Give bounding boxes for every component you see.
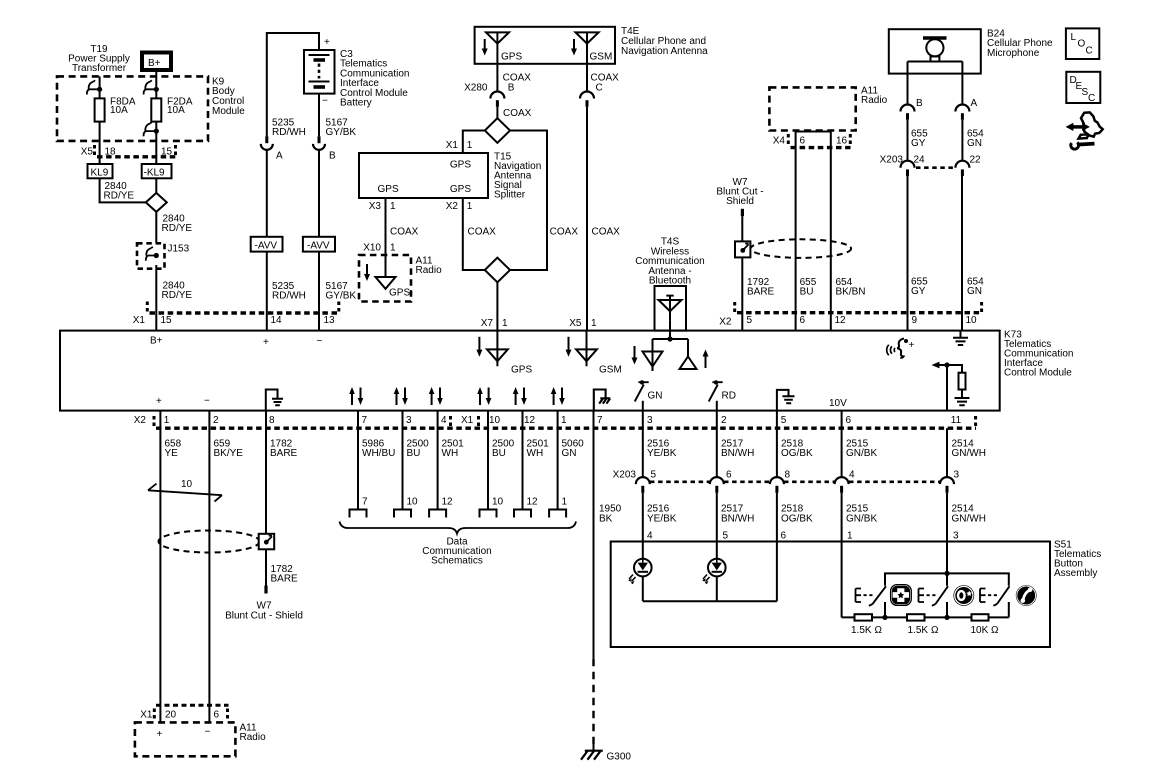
svg-text:BU: BU bbox=[407, 448, 421, 459]
splitter T15 box bbox=[359, 153, 488, 198]
svg-text:X2: X2 bbox=[134, 415, 147, 426]
svg-text:YE/BK: YE/BK bbox=[647, 514, 677, 525]
svg-text:YE: YE bbox=[165, 448, 179, 459]
svg-text:O: O bbox=[1078, 39, 1086, 50]
svg-text:24: 24 bbox=[914, 155, 926, 166]
connector X1 row bbox=[133, 315, 335, 326]
wire 2501 WH data bbox=[437, 411, 439, 510]
splice hook below F2DA bbox=[144, 122, 157, 136]
description DESC box bbox=[1066, 72, 1100, 103]
location LOC box bbox=[1066, 28, 1099, 59]
svg-text:A: A bbox=[276, 151, 283, 162]
wire 2517 BN/WH upper bbox=[716, 411, 718, 478]
svg-text:-KL9: -KL9 bbox=[144, 167, 166, 178]
svg-text:3: 3 bbox=[953, 531, 959, 542]
svg-text:GN/BK: GN/BK bbox=[846, 514, 877, 525]
svg-text:COAX: COAX bbox=[468, 227, 497, 238]
svg-text:−: − bbox=[317, 336, 323, 347]
radio A11 box bottom bbox=[135, 722, 236, 756]
svg-text:Module: Module bbox=[212, 106, 245, 117]
svg-text:3: 3 bbox=[954, 470, 960, 481]
svg-text:12: 12 bbox=[527, 497, 539, 508]
svg-text:RD/YE: RD/YE bbox=[104, 191, 135, 202]
svg-text:GY/BK: GY/BK bbox=[326, 291, 357, 302]
wire 1782 BARE shield bbox=[265, 411, 267, 534]
svg-text:GN: GN bbox=[967, 286, 982, 297]
wire W7 shield bbox=[741, 216, 743, 241]
shield ellipse around radio wires bbox=[751, 239, 852, 258]
svg-text:−: − bbox=[204, 396, 210, 407]
wire A to -AVV bbox=[266, 151, 268, 237]
wire 2501 WH data b bbox=[522, 411, 524, 510]
svg-text:X10: X10 bbox=[363, 243, 381, 254]
svg-text:Bluetooth: Bluetooth bbox=[649, 276, 691, 287]
svg-text:1: 1 bbox=[390, 201, 396, 212]
resistor 1.5K b bbox=[907, 614, 925, 620]
svg-text:GPS: GPS bbox=[389, 288, 410, 299]
svg-text:−: − bbox=[205, 727, 211, 738]
svg-text:KL9: KL9 bbox=[91, 167, 109, 178]
svg-text:8: 8 bbox=[785, 470, 791, 481]
wire diamond to module X7 bbox=[496, 282, 498, 330]
connector X1 radio row bbox=[140, 710, 219, 721]
svg-text:GPS: GPS bbox=[450, 184, 471, 195]
svg-text:16: 16 bbox=[836, 135, 848, 146]
inline connector GSM bbox=[580, 92, 594, 99]
svg-text:B+: B+ bbox=[150, 336, 163, 347]
ground G300 bbox=[581, 751, 603, 760]
svg-text:BARE: BARE bbox=[270, 448, 298, 459]
svg-text:RD/YE: RD/YE bbox=[162, 223, 193, 234]
svg-text:1: 1 bbox=[164, 415, 170, 426]
wire 2516 YE/BK upper bbox=[642, 411, 644, 478]
svg-text:BU: BU bbox=[492, 448, 506, 459]
splice box shield bottom bbox=[259, 534, 275, 550]
svg-text:GPS: GPS bbox=[501, 52, 522, 63]
wire -KL9 to splice diamond bbox=[155, 178, 157, 193]
resistor 1.5K a bbox=[855, 614, 873, 620]
wire 5986 WH/BU data bbox=[357, 411, 359, 510]
splice hook F2DA bbox=[144, 80, 157, 94]
svg-text:Radio: Radio bbox=[240, 732, 267, 743]
svg-text:WH: WH bbox=[442, 448, 459, 459]
svg-text:GY/BK: GY/BK bbox=[326, 127, 357, 138]
svg-text:Blunt Cut - Shield: Blunt Cut - Shield bbox=[225, 611, 303, 622]
wire shield to blunt cut bbox=[265, 549, 267, 585]
svg-text:7: 7 bbox=[362, 497, 368, 508]
svg-text:X4: X4 bbox=[773, 135, 786, 146]
svg-text:COAX: COAX bbox=[550, 227, 579, 238]
internal data arrows bbox=[349, 387, 565, 405]
wire GSM coax to module X5 bbox=[586, 64, 588, 92]
arrow down GSM bbox=[573, 39, 575, 51]
svg-text:C: C bbox=[596, 83, 603, 94]
wire 2500 BU data bbox=[402, 411, 404, 510]
svg-text:9: 9 bbox=[912, 315, 918, 326]
svg-text:10K: 10K bbox=[971, 625, 989, 636]
svg-text:RD: RD bbox=[722, 391, 736, 402]
svg-text:22: 22 bbox=[970, 155, 982, 166]
svg-text:Navigation Antenna: Navigation Antenna bbox=[621, 46, 708, 57]
svg-text:X7: X7 bbox=[481, 318, 494, 329]
inline connector mic A bbox=[955, 105, 969, 112]
svg-text:13: 13 bbox=[324, 315, 336, 326]
internal supply arrow and resistor bbox=[946, 365, 948, 411]
svg-text:+: + bbox=[156, 396, 162, 407]
node KL9 bbox=[88, 164, 113, 178]
svg-text:Schematics: Schematics bbox=[431, 556, 483, 567]
arrow down GPS bbox=[484, 39, 486, 51]
data brace bbox=[340, 522, 577, 534]
svg-text:BARE: BARE bbox=[747, 287, 775, 298]
wire T15 X2 to splice diamond lower bbox=[463, 198, 485, 270]
svg-text:B: B bbox=[329, 151, 336, 162]
svg-text:OG/BK: OG/BK bbox=[781, 514, 813, 525]
LED green indicator bbox=[634, 559, 652, 577]
svg-text:GN/WH: GN/WH bbox=[952, 448, 986, 459]
svg-text:1: 1 bbox=[467, 140, 473, 151]
svg-text:3: 3 bbox=[647, 415, 653, 426]
svg-text:Assembly: Assembly bbox=[1054, 568, 1097, 579]
icon emergency cross bbox=[891, 585, 912, 606]
wire 654 BK/BN to module X2 pin 12 bbox=[830, 132, 832, 331]
svg-text:1.5K: 1.5K bbox=[908, 625, 929, 636]
svg-text:6: 6 bbox=[726, 470, 732, 481]
svg-text:4: 4 bbox=[647, 531, 653, 542]
svg-text:15: 15 bbox=[161, 315, 173, 326]
antenna GPS symbol bbox=[486, 32, 509, 63]
internal chassis ground pin 7 bbox=[594, 390, 611, 411]
svg-text:GY: GY bbox=[911, 138, 926, 149]
svg-text:Control Module: Control Module bbox=[1004, 368, 1072, 379]
wire radio shield pair top bar bbox=[796, 131, 831, 133]
wire 659 BK/YE to radio bbox=[208, 411, 210, 723]
svg-text:GN/WH: GN/WH bbox=[952, 514, 986, 525]
internal microphone icon bbox=[887, 345, 895, 355]
wire B to -AVV bbox=[318, 151, 320, 237]
wire LED red to bus bbox=[716, 576, 718, 601]
wire F8DA to X5 pin 18 bbox=[99, 122, 101, 164]
blunt cut W7 bottom stub bbox=[264, 586, 267, 594]
wire diamond to coax loop right bbox=[510, 131, 547, 271]
splice box shield bbox=[735, 241, 750, 257]
svg-text:-AVV: -AVV bbox=[255, 240, 278, 251]
wire 2500 BU data b bbox=[487, 411, 489, 510]
svg-text:−: − bbox=[322, 96, 328, 107]
connector X5 row bbox=[81, 147, 173, 158]
connector X2 X1 bottom row bbox=[134, 415, 962, 426]
wire battery negative bbox=[318, 94, 320, 137]
wire diamond to J153 bbox=[155, 212, 157, 246]
battery C3 box bbox=[304, 50, 335, 94]
wire T15 X3 coax to radio bbox=[385, 198, 387, 277]
svg-text:C: C bbox=[1088, 93, 1095, 104]
svg-text:5: 5 bbox=[747, 315, 753, 326]
svg-text:COAX: COAX bbox=[592, 227, 621, 238]
splice diamond 2840 bbox=[146, 193, 167, 212]
svg-text:8: 8 bbox=[269, 415, 275, 426]
inline connector X280 GPS bbox=[490, 92, 504, 99]
svg-text:L: L bbox=[1071, 32, 1077, 43]
wire 1792 BARE to module X2 pin 5 bbox=[741, 257, 743, 330]
wire 2514 GN/WH lower bbox=[946, 493, 948, 574]
shield ellipse bottom bbox=[159, 531, 260, 553]
svg-text:B: B bbox=[916, 98, 923, 109]
svg-text:Shield: Shield bbox=[726, 196, 754, 207]
svg-text:4: 4 bbox=[849, 470, 855, 481]
svg-text:10: 10 bbox=[489, 415, 501, 426]
svg-text:X3: X3 bbox=[369, 201, 382, 212]
svg-text:+: + bbox=[324, 37, 330, 48]
wire mic A bbox=[961, 74, 963, 106]
splice diamond GPS lower bbox=[485, 258, 510, 283]
battery C3 plates bbox=[309, 54, 330, 56]
wire 654 GN to module X2 pin 10 bbox=[961, 176, 963, 331]
svg-text:GPS: GPS bbox=[378, 184, 399, 195]
svg-text:X203: X203 bbox=[613, 470, 637, 481]
icon phone bbox=[1016, 585, 1037, 606]
svg-text:12: 12 bbox=[835, 315, 847, 326]
svg-text:1: 1 bbox=[847, 531, 853, 542]
wire 2515 GN/BK lower bbox=[841, 493, 843, 618]
pin X2 1 bbox=[446, 201, 473, 212]
wire 1950 BK to G300 bbox=[593, 411, 595, 659]
internal GN indicator pin 3 bbox=[642, 401, 644, 411]
svg-text:X5: X5 bbox=[569, 318, 582, 329]
connector X203 row lower bbox=[613, 470, 960, 481]
antenna GSM symbol bbox=[576, 32, 599, 63]
wire LED return bus bbox=[643, 600, 777, 602]
inline connector B bbox=[318, 136, 321, 143]
blunt cut W7 label bbox=[716, 177, 763, 207]
fuse F8DA 10A bbox=[95, 98, 105, 121]
pin X3 1 bbox=[369, 201, 396, 212]
svg-text:BK/BN: BK/BN bbox=[836, 287, 866, 298]
wire 655 BU to module X2 pin 6 bbox=[795, 132, 797, 331]
wire 2518 OG/BK lower bbox=[776, 493, 778, 601]
inline connector A bbox=[265, 136, 268, 143]
body control module K9 box bbox=[57, 76, 208, 140]
arrow down radio gps bbox=[366, 264, 368, 276]
switch onstar button bbox=[919, 589, 925, 603]
svg-text:GSM: GSM bbox=[590, 52, 613, 63]
pin X10 1 bbox=[363, 243, 396, 254]
svg-text:+: + bbox=[909, 340, 915, 351]
svg-text:5: 5 bbox=[781, 415, 787, 426]
svg-text:G300: G300 bbox=[607, 752, 632, 763]
svg-text:10: 10 bbox=[181, 479, 193, 490]
svg-text:Ω: Ω bbox=[991, 625, 999, 636]
internal GPS antenna bbox=[478, 337, 480, 352]
antenna radio GPS symbol bbox=[376, 277, 396, 289]
svg-text:+: + bbox=[263, 337, 269, 348]
svg-text:6: 6 bbox=[846, 415, 852, 426]
svg-text:10: 10 bbox=[492, 497, 504, 508]
svg-text:5: 5 bbox=[723, 531, 729, 542]
wire GPS coax bbox=[496, 64, 498, 92]
svg-text:GN/BK: GN/BK bbox=[846, 448, 877, 459]
svg-text:1: 1 bbox=[502, 318, 508, 329]
svg-text:YE/BK: YE/BK bbox=[647, 448, 677, 459]
wire 5167 GY/BK to X1 pin 13 bbox=[318, 252, 320, 331]
microphone B24 box bbox=[889, 29, 981, 73]
svg-text:Ω: Ω bbox=[875, 625, 883, 636]
svg-text:1: 1 bbox=[390, 243, 396, 254]
svg-text:X203: X203 bbox=[880, 155, 904, 166]
switch emergency button bbox=[856, 589, 862, 603]
svg-text:Transformer: Transformer bbox=[72, 63, 127, 74]
svg-text:Splitter: Splitter bbox=[494, 190, 526, 201]
svg-text:10: 10 bbox=[407, 497, 419, 508]
svg-text:X1: X1 bbox=[461, 415, 474, 426]
internal RD indicator pin 2 bbox=[716, 401, 718, 411]
svg-text:Ω: Ω bbox=[931, 625, 939, 636]
svg-text:OG/BK: OG/BK bbox=[781, 448, 813, 459]
svg-text:COAX: COAX bbox=[503, 108, 532, 119]
antenna T4S symbol bbox=[659, 296, 682, 321]
icon onstar bbox=[953, 585, 974, 606]
svg-text:10A: 10A bbox=[167, 105, 185, 116]
internal GSM antenna bbox=[568, 337, 570, 352]
svg-text:11: 11 bbox=[951, 415, 962, 426]
svg-text:1.5K: 1.5K bbox=[851, 625, 872, 636]
svg-text:-AVV: -AVV bbox=[307, 240, 330, 251]
svg-text:1: 1 bbox=[591, 318, 597, 329]
data terminal brackets bbox=[350, 510, 367, 518]
svg-text:Battery: Battery bbox=[340, 98, 372, 109]
svg-text:BK: BK bbox=[599, 514, 613, 525]
svg-text:B+: B+ bbox=[148, 58, 161, 69]
svg-text:10: 10 bbox=[966, 315, 978, 326]
microphone symbol bbox=[923, 36, 947, 39]
svg-text:5: 5 bbox=[651, 470, 657, 481]
node -AVV right bbox=[303, 237, 335, 252]
wire 2515 bottom bus bbox=[842, 616, 1009, 618]
svg-text:10A: 10A bbox=[110, 105, 128, 116]
svg-text:14: 14 bbox=[271, 315, 283, 326]
wire J153 to X1 pin 15 bbox=[155, 265, 157, 331]
svg-text:7: 7 bbox=[597, 415, 603, 426]
LED red indicator bbox=[708, 559, 726, 577]
svg-text:X1: X1 bbox=[446, 140, 459, 151]
svg-text:7: 7 bbox=[362, 415, 368, 426]
splice J153 symbol bbox=[146, 247, 156, 261]
wire 2518 OG/BK upper bbox=[776, 411, 778, 478]
svg-text:12: 12 bbox=[442, 497, 454, 508]
svg-text:X5: X5 bbox=[81, 147, 94, 158]
wire F2DA to X5 pin 15 bbox=[155, 122, 157, 164]
radio A11 gps box bbox=[359, 255, 411, 302]
svg-text:J153: J153 bbox=[168, 244, 190, 255]
svg-text:X1: X1 bbox=[140, 710, 153, 721]
internal ground top right bbox=[953, 331, 968, 345]
internal ground pin 5 bbox=[777, 390, 795, 411]
splice diamond GPS upper bbox=[485, 118, 510, 143]
svg-text:WH/BU: WH/BU bbox=[362, 448, 395, 459]
svg-text:A: A bbox=[971, 98, 978, 109]
wire 2514 GN/WH upper bbox=[946, 428, 948, 478]
wire diamond to T15 X1 bbox=[463, 131, 485, 154]
transformer T19 label bbox=[68, 44, 130, 74]
svg-text:Microphone: Microphone bbox=[987, 48, 1040, 59]
wire to splice diamond bbox=[496, 107, 498, 118]
svg-text:X2: X2 bbox=[446, 201, 459, 212]
wire 5060 GN data bbox=[557, 411, 559, 510]
wire mic B bbox=[907, 74, 909, 106]
blunt cut W7 stub bbox=[741, 209, 744, 216]
svg-text:Radio: Radio bbox=[416, 265, 443, 276]
wire count 10 annotation bbox=[148, 484, 222, 502]
wire 2516 YE/BK lower bbox=[642, 493, 644, 559]
wire switch top bus bbox=[885, 573, 1009, 585]
svg-text:20: 20 bbox=[165, 710, 177, 721]
svg-text:12: 12 bbox=[524, 415, 536, 426]
internal bluetooth antenna branch bbox=[669, 321, 671, 339]
svg-text:WH: WH bbox=[527, 448, 544, 459]
svg-text:BN/WH: BN/WH bbox=[721, 448, 754, 459]
splice J153 box bbox=[137, 243, 165, 268]
svg-text:6: 6 bbox=[800, 315, 806, 326]
data terminal pins bbox=[362, 497, 568, 508]
radio A11 box upper right bbox=[769, 87, 855, 130]
node -AVV left bbox=[251, 237, 283, 252]
connector X2 row top bbox=[719, 315, 977, 328]
svg-text:10V: 10V bbox=[829, 398, 847, 409]
wire C3 battery positive feed bbox=[267, 33, 319, 136]
svg-text:6: 6 bbox=[800, 135, 806, 146]
svg-text:RD/YE: RD/YE bbox=[162, 290, 193, 301]
svg-text:1: 1 bbox=[561, 415, 567, 426]
svg-text:RD/WH: RD/WH bbox=[272, 127, 306, 138]
splice hook F8DA bbox=[87, 80, 100, 94]
resistor 10K bbox=[972, 614, 989, 620]
svg-text:GPS: GPS bbox=[511, 365, 532, 376]
module K73 box bbox=[60, 331, 1000, 411]
internal ground pin 8 bbox=[266, 390, 283, 411]
connector X203 row upper bbox=[880, 155, 981, 166]
svg-text:RD/WH: RD/WH bbox=[272, 291, 306, 302]
svg-text:2: 2 bbox=[213, 415, 219, 426]
svg-text:GN: GN bbox=[967, 138, 982, 149]
wire 658 YE to radio bbox=[159, 411, 161, 723]
svg-text:1: 1 bbox=[562, 497, 568, 508]
svg-text:GPS: GPS bbox=[450, 160, 471, 171]
button assembly S51 box bbox=[611, 542, 1050, 648]
fuse F2DA 10A bbox=[151, 98, 161, 121]
antenna T4E box bbox=[475, 27, 615, 64]
svg-text:6: 6 bbox=[781, 531, 787, 542]
svg-text:GY: GY bbox=[911, 286, 926, 297]
antenna T4S label bbox=[635, 237, 704, 287]
svg-text:1: 1 bbox=[467, 201, 473, 212]
svg-text:4: 4 bbox=[441, 415, 447, 426]
wire 655 GY to module X2 pin 9 bbox=[907, 176, 909, 331]
svg-text:X2: X2 bbox=[719, 317, 732, 328]
svg-text:BU: BU bbox=[800, 287, 814, 298]
node B+ bbox=[142, 53, 171, 71]
svg-text:B: B bbox=[508, 83, 515, 94]
wire 5235 RD/WH to X1 pin 14 bbox=[266, 252, 268, 331]
wire 2515 GN/BK upper bbox=[841, 411, 843, 478]
svg-text:2: 2 bbox=[721, 415, 727, 426]
antenna T4S box bbox=[655, 286, 687, 331]
svg-text:+: + bbox=[157, 729, 163, 740]
wire fuse F8DA feed bbox=[99, 76, 101, 98]
svg-text:COAX: COAX bbox=[390, 227, 419, 238]
wire fuse F2DA feed bbox=[155, 89, 157, 98]
wire KL9 to splice diamond bbox=[100, 178, 147, 202]
svg-text:BARE: BARE bbox=[271, 574, 299, 585]
